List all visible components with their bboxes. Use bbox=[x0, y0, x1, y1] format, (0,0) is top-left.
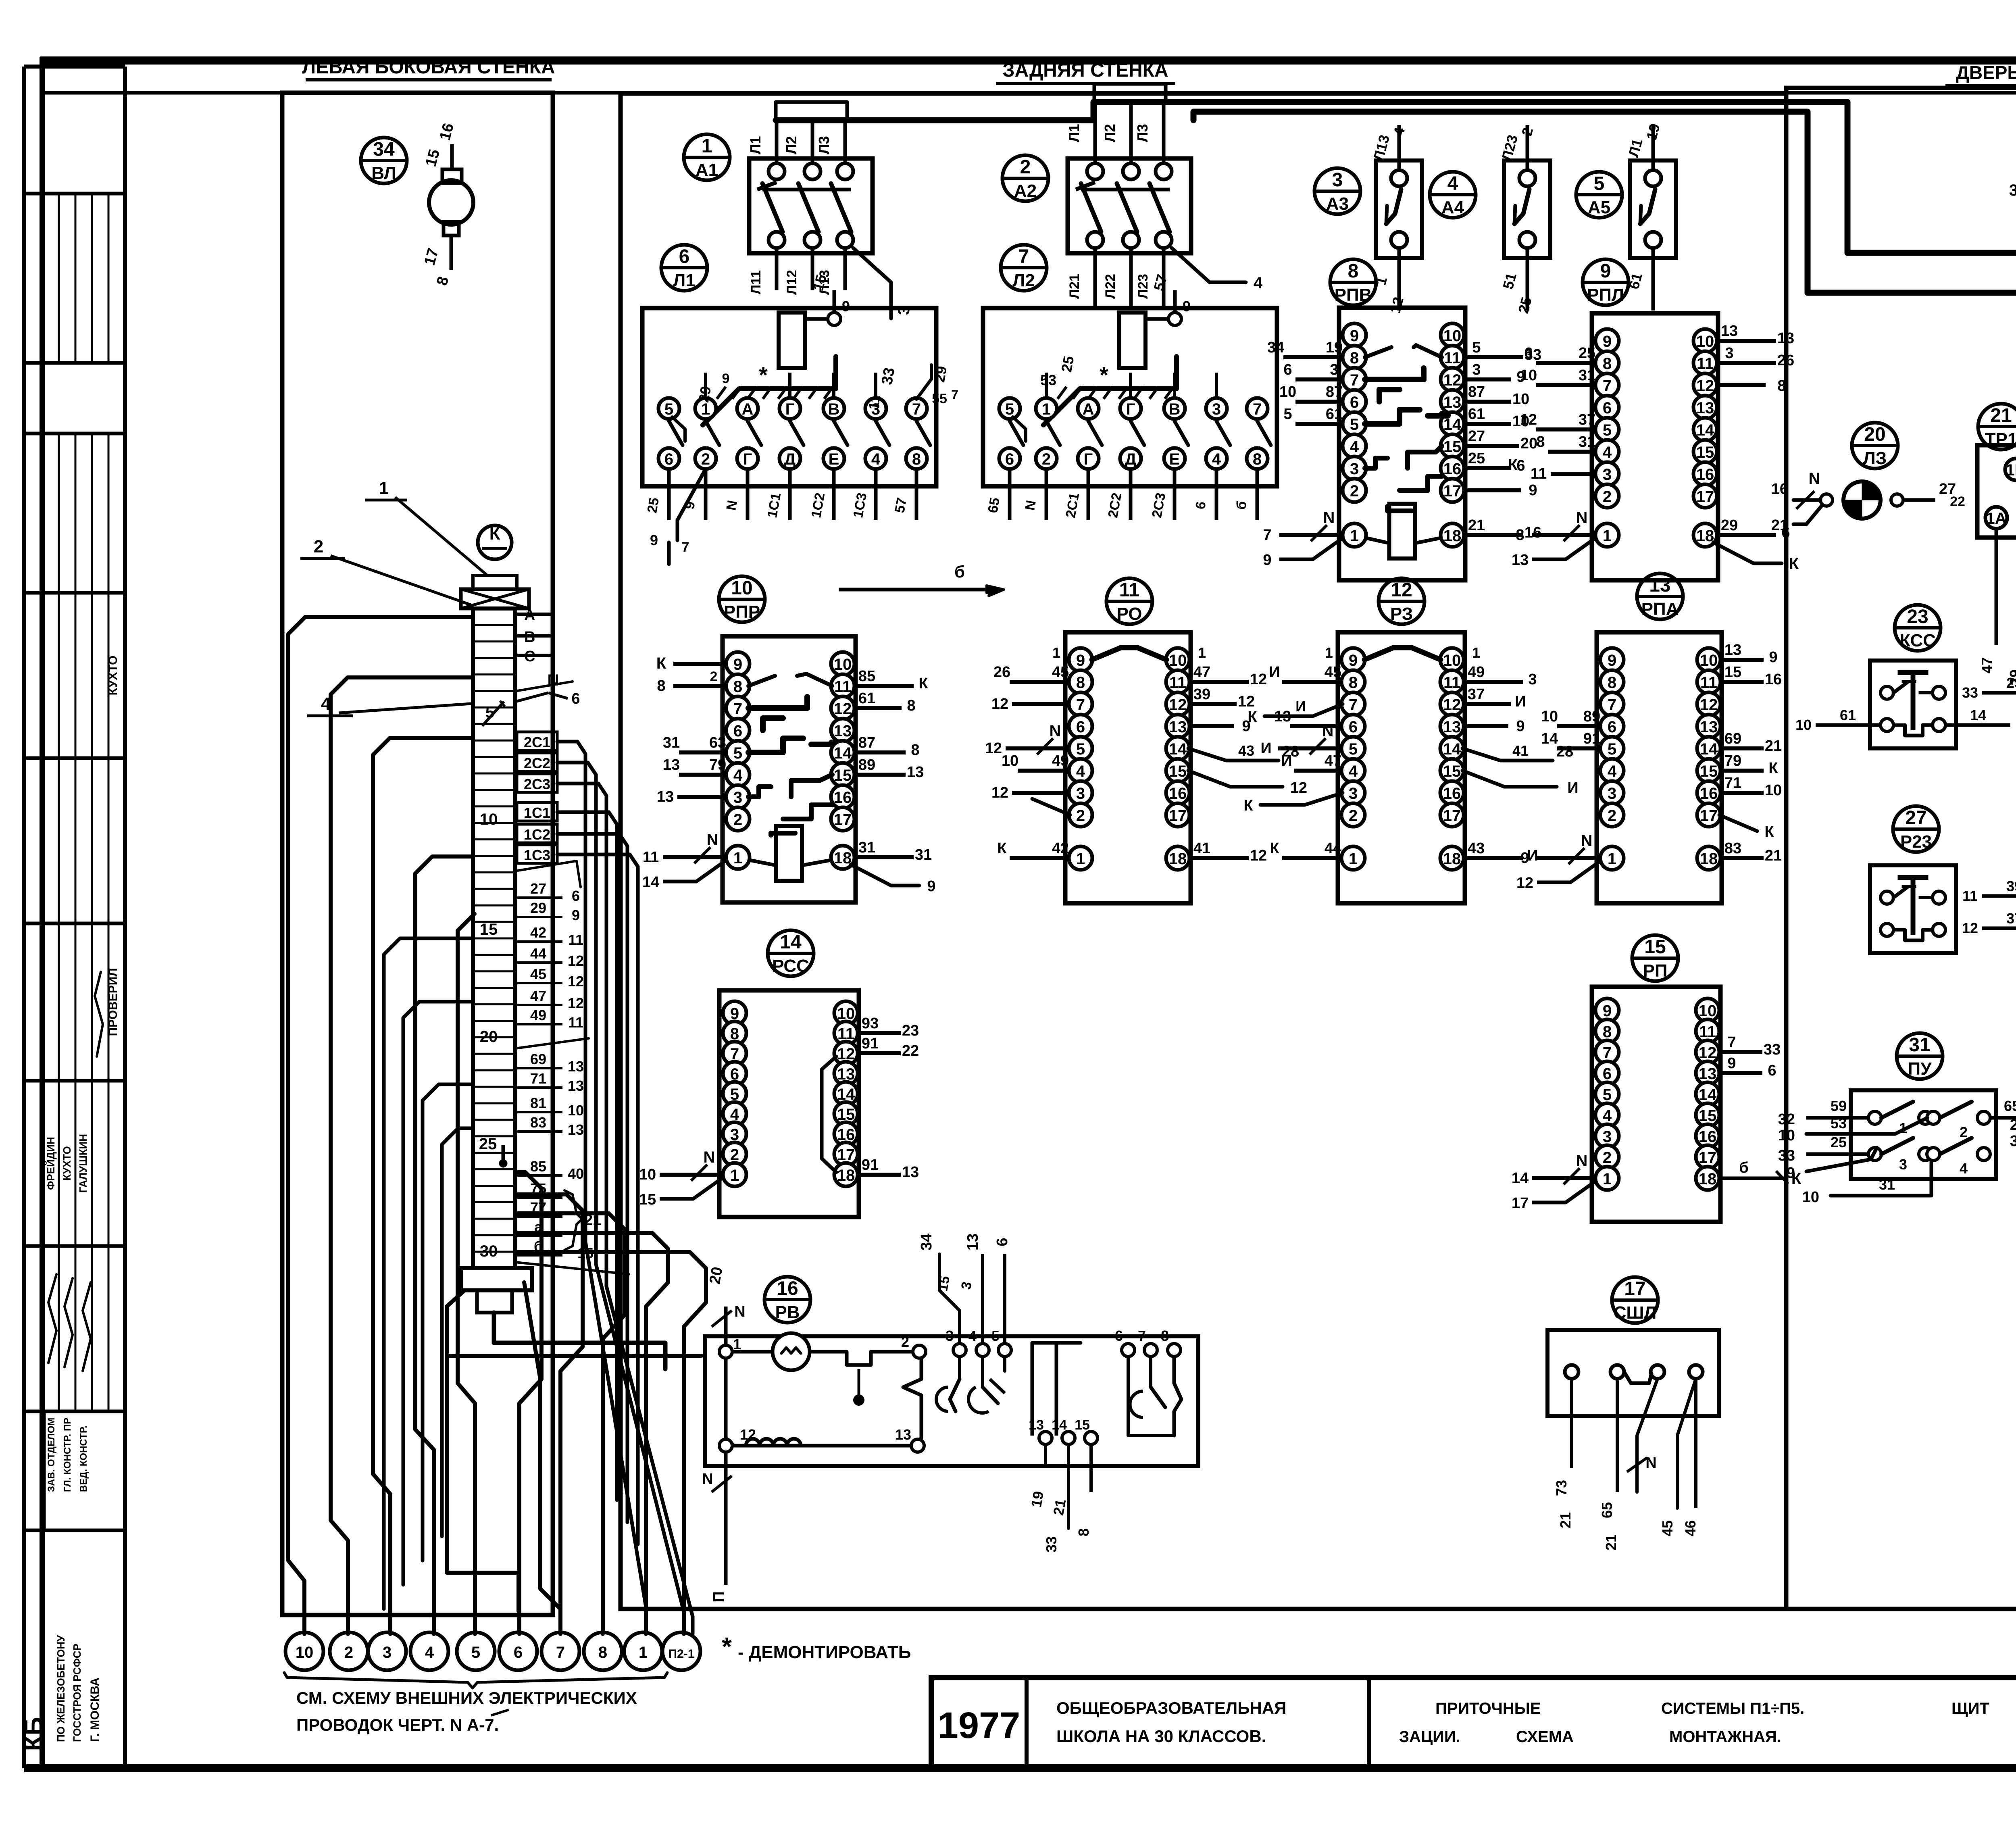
svg-text:69: 69 bbox=[1724, 730, 1741, 747]
svg-text:7: 7 bbox=[1138, 1327, 1146, 1344]
svg-text:5: 5 bbox=[991, 1327, 1000, 1344]
svg-text:61: 61 bbox=[1468, 406, 1485, 423]
svg-text:К: К bbox=[656, 654, 666, 672]
svg-text:32: 32 bbox=[1778, 1111, 1795, 1128]
contactor Л2 label bbox=[1001, 245, 1047, 291]
svg-text:14: 14 bbox=[780, 932, 802, 953]
svg-text:9: 9 bbox=[1769, 649, 1777, 666]
svg-text:14: 14 bbox=[1700, 740, 1718, 758]
svg-text:7: 7 bbox=[951, 388, 958, 402]
svg-text:41: 41 bbox=[1193, 840, 1210, 857]
svg-text:10: 10 bbox=[1279, 383, 1296, 400]
svg-text:43: 43 bbox=[1468, 840, 1485, 857]
page frame left border bbox=[40, 57, 45, 1771]
svg-text:12: 12 bbox=[1238, 693, 1255, 710]
svg-text:7: 7 bbox=[1608, 696, 1616, 714]
svg-text:9: 9 bbox=[722, 371, 730, 386]
svg-text:12: 12 bbox=[834, 700, 852, 718]
svg-text:18: 18 bbox=[1699, 1170, 1717, 1188]
svg-text:3: 3 bbox=[1076, 785, 1085, 802]
svg-text:2С3: 2С3 bbox=[524, 776, 550, 792]
svg-text:СИСТЕМЫ П1÷П5.: СИСТЕМЫ П1÷П5. bbox=[1661, 1700, 1804, 1717]
svg-text:19: 19 bbox=[1326, 339, 1343, 356]
svg-text:10: 10 bbox=[1765, 782, 1782, 799]
svg-text:2С2: 2С2 bbox=[524, 755, 550, 771]
svg-text:21: 21 bbox=[1050, 1498, 1069, 1517]
svg-text:47: 47 bbox=[1325, 752, 1341, 769]
svg-text:57: 57 bbox=[892, 496, 910, 514]
svg-text:15: 15 bbox=[1443, 763, 1461, 780]
timer RV sync motor symbol bbox=[773, 1333, 810, 1370]
relay RSS item 14 bbox=[719, 990, 859, 1217]
svg-text:65: 65 bbox=[2004, 1098, 2016, 1114]
svg-text:5: 5 bbox=[1608, 740, 1616, 758]
relay RPV stub N pin1 bbox=[1279, 533, 1344, 537]
svg-text:16: 16 bbox=[1700, 785, 1718, 802]
svg-text:2: 2 bbox=[710, 669, 718, 684]
svg-text:5: 5 bbox=[1603, 1086, 1612, 1104]
svg-text:10: 10 bbox=[731, 577, 752, 599]
svg-text:13: 13 bbox=[1699, 1065, 1717, 1083]
terminal strip boxed labels 2C1-1C3 bbox=[517, 732, 557, 750]
svg-text:ВЕД. КОНСТР.: ВЕД. КОНСТР. bbox=[78, 1425, 89, 1492]
svg-text:2: 2 bbox=[314, 537, 323, 556]
svg-text:49: 49 bbox=[1468, 664, 1485, 681]
title block frame bbox=[931, 1678, 2016, 1768]
svg-text:К: К bbox=[489, 524, 500, 544]
svg-text:14: 14 bbox=[1970, 707, 1986, 723]
breaker А4 label bbox=[1430, 172, 1476, 218]
timer RV inductor bbox=[746, 1439, 801, 1446]
svg-text:2: 2 bbox=[733, 811, 742, 829]
svg-text:10: 10 bbox=[1520, 367, 1537, 384]
svg-text:8: 8 bbox=[907, 697, 915, 714]
svg-text:14: 14 bbox=[1699, 1086, 1717, 1104]
svg-text:12: 12 bbox=[1962, 920, 1978, 936]
wire fan from terminal strip to bottom terminals left group bbox=[288, 617, 473, 1634]
contactor Л1 label bbox=[661, 245, 707, 291]
svg-text:11: 11 bbox=[1444, 349, 1461, 367]
svg-text:ЛЗ: ЛЗ bbox=[1863, 448, 1887, 468]
leader line 2 to terminal strip bbox=[331, 556, 471, 605]
heavy stepped wires bottom left area bbox=[494, 1313, 665, 1369]
svg-text:8: 8 bbox=[1516, 527, 1524, 544]
svg-text:31: 31 bbox=[1909, 1034, 1930, 1056]
svg-text:11: 11 bbox=[1119, 579, 1140, 601]
svg-text:29: 29 bbox=[931, 365, 950, 384]
leader line 1 to terminal strip bbox=[395, 497, 488, 576]
svg-text:10: 10 bbox=[1541, 708, 1558, 725]
svg-text:4: 4 bbox=[1960, 1160, 1968, 1177]
svg-text:6: 6 bbox=[733, 722, 742, 740]
svg-text:16: 16 bbox=[834, 789, 852, 806]
svg-text:11: 11 bbox=[643, 849, 659, 866]
svg-text:3: 3 bbox=[1725, 345, 1733, 362]
svg-text:1: 1 bbox=[733, 1336, 741, 1352]
svg-text:11: 11 bbox=[834, 678, 851, 696]
page frame bottom border bbox=[24, 1764, 2016, 1772]
svg-text:45: 45 bbox=[1052, 664, 1069, 681]
bottom external terminal circles bbox=[285, 1632, 323, 1670]
svg-text:23: 23 bbox=[902, 1022, 919, 1039]
svg-text:4: 4 bbox=[968, 1327, 977, 1344]
svg-text:1: 1 bbox=[702, 135, 712, 157]
main bus wire from A1 to door section bbox=[776, 102, 2016, 264]
switch PU item 31 bbox=[1851, 1090, 1996, 1179]
svg-text:89: 89 bbox=[858, 756, 875, 773]
relay RPR stubs bbox=[673, 662, 727, 666]
svg-text:89: 89 bbox=[1583, 708, 1600, 725]
svg-text:ПРОВЕРИЛ: ПРОВЕРИЛ bbox=[106, 968, 120, 1036]
relay RPV stubs right bbox=[1463, 355, 1523, 359]
svg-text:11: 11 bbox=[1699, 1023, 1716, 1041]
svg-text:6: 6 bbox=[1115, 1327, 1123, 1344]
svg-text:34: 34 bbox=[373, 139, 395, 160]
svg-text:13: 13 bbox=[1443, 394, 1462, 411]
svg-text:79: 79 bbox=[1724, 752, 1741, 769]
svg-text:10: 10 bbox=[1696, 333, 1714, 350]
svg-text:8: 8 bbox=[1603, 1023, 1612, 1041]
svg-text:N: N bbox=[1322, 722, 1334, 740]
svg-text:КУХТО: КУХТО bbox=[106, 656, 120, 696]
svg-text:37: 37 bbox=[1468, 686, 1485, 703]
svg-text:2: 2 bbox=[1076, 807, 1085, 825]
relay RZ stubs bbox=[1282, 680, 1343, 684]
SSHL wires down bbox=[1570, 1379, 1573, 1468]
svg-text:ПУ: ПУ bbox=[1908, 1059, 1932, 1079]
svg-text:3: 3 bbox=[1349, 785, 1358, 802]
stamp signature curve bbox=[95, 972, 103, 1057]
motor VL item 34 label bbox=[361, 138, 407, 183]
svg-text:13: 13 bbox=[1169, 718, 1187, 736]
svg-text:12: 12 bbox=[991, 784, 1008, 801]
svg-text:13: 13 bbox=[568, 1058, 584, 1075]
svg-text:4: 4 bbox=[1254, 274, 1263, 292]
svg-text:3: 3 bbox=[1212, 400, 1221, 418]
svg-text:РПА: РПА bbox=[1641, 599, 1679, 619]
svg-text:1: 1 bbox=[639, 1644, 648, 1661]
SSHL jumper wire bbox=[1624, 1372, 1652, 1383]
svg-text:2: 2 bbox=[1960, 1124, 1968, 1140]
svg-text:Л1: Л1 bbox=[673, 271, 695, 290]
svg-text:РСС: РСС bbox=[772, 956, 809, 976]
svg-text:13: 13 bbox=[1512, 552, 1529, 569]
svg-text:ЗАВ. ОТДЕЛОМ: ЗАВ. ОТДЕЛОМ bbox=[46, 1418, 57, 1492]
svg-text:17: 17 bbox=[1624, 1278, 1645, 1300]
svg-text:87: 87 bbox=[858, 734, 875, 751]
lamp LZ item 20 label bbox=[1852, 423, 1898, 469]
svg-text:12: 12 bbox=[1443, 371, 1462, 389]
svg-text:7: 7 bbox=[1253, 400, 1262, 418]
svg-text:16: 16 bbox=[1169, 785, 1187, 802]
contactor Л1 bottom wires bbox=[667, 469, 671, 520]
svg-text:N: N bbox=[1323, 509, 1335, 527]
svg-text:13: 13 bbox=[1274, 708, 1291, 725]
svg-text:К: К bbox=[1508, 456, 1518, 474]
svg-text:47: 47 bbox=[530, 988, 546, 1004]
svg-text:27: 27 bbox=[1468, 428, 1485, 445]
svg-text:4: 4 bbox=[1608, 763, 1617, 780]
svg-text:10: 10 bbox=[1778, 1127, 1795, 1144]
A2 tap box on bus bbox=[1094, 84, 1166, 102]
svg-text:10: 10 bbox=[1699, 1002, 1717, 1020]
svg-text:ГЛ. КОНСТР. ПР: ГЛ. КОНСТР. ПР bbox=[62, 1418, 73, 1492]
svg-text:22: 22 bbox=[902, 1042, 919, 1059]
svg-text:9: 9 bbox=[1600, 260, 1611, 282]
svg-text:29: 29 bbox=[695, 385, 714, 404]
svg-text:34: 34 bbox=[918, 1234, 935, 1250]
svg-text:Л3: Л3 bbox=[1134, 124, 1151, 142]
svg-text:5: 5 bbox=[1603, 421, 1612, 439]
svg-text:*: * bbox=[1100, 362, 1108, 388]
svg-text:4: 4 bbox=[1447, 173, 1458, 194]
brace under bottom terminals bbox=[284, 1673, 667, 1688]
svg-text:8: 8 bbox=[1253, 450, 1262, 468]
svg-text:3: 3 bbox=[1332, 169, 1343, 191]
svg-text:1: 1 bbox=[1052, 644, 1060, 661]
svg-text:83: 83 bbox=[1724, 840, 1741, 857]
svg-text:К: К bbox=[997, 840, 1007, 857]
timer RV item 16 label bbox=[764, 1277, 810, 1323]
svg-text:15: 15 bbox=[834, 767, 852, 784]
svg-text:6: 6 bbox=[1350, 394, 1359, 411]
svg-text:СХЕМА: СХЕМА bbox=[1516, 1728, 1574, 1746]
svg-text:6: 6 bbox=[1608, 718, 1616, 736]
svg-text:4: 4 bbox=[1076, 763, 1085, 780]
svg-text:11: 11 bbox=[866, 394, 883, 411]
svg-text:25: 25 bbox=[1058, 355, 1077, 374]
svg-text:10: 10 bbox=[834, 656, 852, 673]
svg-text:ПРОВОДОК ЧЕРТ. N А-7.: ПРОВОДОК ЧЕРТ. N А-7. bbox=[296, 1715, 499, 1734]
svg-text:1: 1 bbox=[1608, 850, 1616, 868]
lamp block SSHL item 17 bbox=[1547, 1330, 1719, 1416]
svg-text:19: 19 bbox=[1028, 1490, 1047, 1509]
svg-text:ЗАДНЯЯ СТЕНКА: ЗАДНЯЯ СТЕНКА bbox=[1002, 60, 1168, 81]
relay RPL stubs bbox=[1536, 361, 1597, 365]
svg-text:25: 25 bbox=[479, 1135, 497, 1153]
svg-text:17: 17 bbox=[1443, 482, 1462, 500]
svg-text:18: 18 bbox=[1443, 527, 1462, 545]
svg-text:17: 17 bbox=[1696, 488, 1714, 506]
svg-text:13: 13 bbox=[1649, 575, 1670, 596]
svg-text:1: 1 bbox=[730, 1167, 739, 1184]
svg-text:СШЛ: СШЛ bbox=[1614, 1303, 1657, 1323]
svg-text:П: П bbox=[710, 1591, 727, 1602]
svg-text:10: 10 bbox=[1169, 652, 1187, 669]
svg-text:1С1: 1С1 bbox=[524, 804, 550, 821]
svg-text:А4: А4 bbox=[1441, 198, 1464, 217]
svg-text:29: 29 bbox=[1721, 517, 1738, 534]
relay RZ item 12 label bbox=[1379, 578, 1425, 624]
circuit breaker A1 label bbox=[684, 134, 730, 180]
svg-text:5: 5 bbox=[1349, 740, 1358, 758]
svg-text:12: 12 bbox=[991, 696, 1008, 713]
svg-text:А: А bbox=[1083, 400, 1094, 418]
svg-text:2: 2 bbox=[1608, 807, 1616, 825]
svg-text:6: 6 bbox=[1076, 718, 1085, 736]
svg-text:7: 7 bbox=[733, 700, 742, 718]
svg-text:б: б bbox=[954, 562, 965, 581]
svg-text:4: 4 bbox=[871, 450, 881, 468]
svg-text:4: 4 bbox=[425, 1644, 434, 1661]
svg-text:6: 6 bbox=[1005, 450, 1014, 468]
svg-text:Л12: Л12 bbox=[784, 270, 800, 295]
svg-text:21: 21 bbox=[1990, 405, 2012, 426]
timer RV wires above 34 13 6 bbox=[939, 1254, 960, 1311]
corridor wires from strip boxed rows down right bbox=[557, 742, 646, 1634]
svg-text:И: И bbox=[1295, 698, 1306, 715]
svg-text:9: 9 bbox=[1076, 652, 1085, 669]
svg-text:А: А bbox=[742, 400, 754, 418]
svg-text:И: И bbox=[1567, 779, 1578, 796]
svg-text:8: 8 bbox=[911, 742, 919, 759]
svg-text:39: 39 bbox=[2006, 878, 2016, 894]
svg-text:12: 12 bbox=[1169, 696, 1187, 714]
svg-text:21: 21 bbox=[1765, 847, 1782, 864]
svg-text:15: 15 bbox=[480, 921, 498, 938]
svg-text:Л2: Л2 bbox=[783, 136, 800, 154]
svg-text:16: 16 bbox=[1524, 524, 1541, 541]
svg-text:45: 45 bbox=[1659, 1520, 1676, 1536]
svg-text:8: 8 bbox=[1076, 674, 1085, 692]
svg-text:6: 6 bbox=[1516, 457, 1525, 474]
svg-text:К: К bbox=[1789, 555, 1799, 573]
svg-text:40: 40 bbox=[568, 1165, 584, 1182]
svg-text:49: 49 bbox=[530, 1007, 546, 1023]
svg-text:8: 8 bbox=[912, 450, 921, 468]
svg-text:ЩИТ: ЩИТ bbox=[1951, 1700, 1989, 1717]
svg-text:69: 69 bbox=[530, 1051, 546, 1067]
svg-text:2: 2 bbox=[1350, 482, 1359, 500]
svg-text:N: N bbox=[707, 831, 719, 849]
svg-text:В: В bbox=[1169, 400, 1181, 418]
svg-text:ПРИТОЧНЫЕ: ПРИТОЧНЫЕ bbox=[1435, 1700, 1541, 1717]
svg-text:9: 9 bbox=[1183, 298, 1191, 315]
svg-text:18: 18 bbox=[1443, 850, 1461, 868]
svg-text:7: 7 bbox=[1603, 377, 1612, 395]
svg-text:47: 47 bbox=[1193, 664, 1210, 681]
svg-text:9: 9 bbox=[733, 656, 742, 673]
svg-text:12: 12 bbox=[568, 952, 584, 969]
breaker А5 label bbox=[1576, 172, 1622, 218]
svg-text:47: 47 bbox=[1979, 657, 1995, 673]
timer RV item 16 body bbox=[705, 1336, 1198, 1466]
A1 tap box on bus bbox=[776, 102, 847, 120]
svg-text:11: 11 bbox=[1531, 465, 1547, 482]
svg-text:8: 8 bbox=[1161, 1327, 1169, 1344]
svg-text:81: 81 bbox=[530, 1095, 546, 1111]
relay RO item 11 bbox=[1065, 632, 1191, 903]
svg-text:РО: РО bbox=[1117, 604, 1142, 624]
svg-text:65: 65 bbox=[1599, 1502, 1615, 1518]
svg-text:3: 3 bbox=[383, 1644, 392, 1661]
svg-text:10: 10 bbox=[568, 1102, 584, 1119]
svg-text:63: 63 bbox=[709, 734, 726, 751]
svg-text:43: 43 bbox=[1238, 742, 1254, 759]
svg-text:1С3: 1С3 bbox=[524, 847, 550, 863]
svg-text:3: 3 bbox=[1472, 361, 1481, 378]
svg-text:17: 17 bbox=[834, 811, 852, 829]
page frame inner top line bbox=[42, 91, 2016, 95]
svg-text:Е: Е bbox=[829, 450, 839, 468]
svg-text:9: 9 bbox=[650, 532, 658, 548]
svg-text:26: 26 bbox=[993, 664, 1010, 681]
svg-text:41: 41 bbox=[1512, 742, 1529, 759]
svg-text:2: 2 bbox=[730, 1146, 739, 1164]
svg-text:7: 7 bbox=[1349, 696, 1358, 714]
svg-text:*: * bbox=[722, 1632, 732, 1661]
svg-text:31: 31 bbox=[663, 734, 680, 751]
svg-text:Г. МОСКВА: Г. МОСКВА bbox=[88, 1678, 102, 1742]
svg-text:31: 31 bbox=[2010, 1133, 2016, 1150]
page frame outer top border bbox=[40, 56, 2016, 65]
svg-text:17: 17 bbox=[837, 1146, 855, 1164]
svg-text:МОНТАЖНАЯ.: МОНТАЖНАЯ. bbox=[1669, 1728, 1781, 1746]
svg-text:9: 9 bbox=[1529, 482, 1537, 499]
svg-text:4: 4 bbox=[1212, 450, 1221, 468]
svg-text:5: 5 bbox=[471, 1644, 480, 1661]
terminal strip K label bbox=[478, 525, 512, 559]
svg-text:9: 9 bbox=[842, 298, 850, 315]
svg-text:31: 31 bbox=[915, 846, 932, 863]
svg-text:13: 13 bbox=[907, 764, 924, 781]
svg-text:42: 42 bbox=[1052, 840, 1069, 857]
svg-text:13: 13 bbox=[834, 722, 852, 740]
svg-text:10: 10 bbox=[1443, 327, 1462, 345]
svg-text:ПО ЖЕЛЕЗОБЕТОНУ: ПО ЖЕЛЕЗОБЕТОНУ bbox=[55, 1635, 67, 1742]
svg-text:12: 12 bbox=[740, 1426, 756, 1443]
svg-text:9: 9 bbox=[572, 907, 580, 923]
svg-text:б: б bbox=[1739, 1159, 1748, 1176]
svg-text:21: 21 bbox=[1468, 517, 1485, 534]
transformer TR1 bottom wires bbox=[1995, 529, 1998, 645]
svg-text:21: 21 bbox=[1771, 517, 1788, 534]
svg-text:8: 8 bbox=[1777, 377, 1786, 394]
svg-text:28: 28 bbox=[1556, 743, 1573, 760]
push button Р23 label bbox=[1893, 806, 1939, 852]
svg-text:13: 13 bbox=[568, 1077, 584, 1094]
svg-text:И: И bbox=[1260, 740, 1271, 757]
svg-text:12: 12 bbox=[1391, 579, 1412, 601]
svg-text:12: 12 bbox=[1290, 779, 1307, 796]
svg-text:ДВЕРЬ (ВИД СЗАДИ): ДВЕРЬ (ВИД СЗАДИ) bbox=[1956, 62, 2016, 83]
push button КСС label bbox=[1895, 605, 1941, 651]
svg-text:6: 6 bbox=[1603, 399, 1612, 417]
svg-text:П2-1: П2-1 bbox=[669, 1647, 695, 1661]
svg-text:3: 3 bbox=[1330, 361, 1338, 378]
terminal strip fuse crossed box bbox=[473, 575, 517, 589]
svg-text:37: 37 bbox=[2006, 910, 2016, 927]
relay RPV item 8 label bbox=[1330, 259, 1376, 305]
svg-text:КУХТО: КУХТО bbox=[61, 1146, 73, 1181]
relay RO stubs bbox=[1010, 680, 1070, 684]
svg-text:13: 13 bbox=[1721, 323, 1738, 340]
svg-text:14: 14 bbox=[1512, 1170, 1529, 1187]
svg-text:2С1: 2С1 bbox=[524, 734, 550, 750]
switch PU wires bbox=[1806, 1116, 1868, 1120]
contactor Л1 bbox=[642, 308, 936, 486]
relay RP stubs bbox=[1718, 1050, 1762, 1054]
lamp block SSHL item 17 label bbox=[1612, 1277, 1658, 1323]
svg-text:8: 8 bbox=[598, 1644, 607, 1661]
svg-text:16: 16 bbox=[1696, 466, 1714, 483]
svg-text:9: 9 bbox=[1787, 1165, 1795, 1182]
svg-text:7: 7 bbox=[1603, 1044, 1612, 1062]
svg-text:87: 87 bbox=[1326, 383, 1343, 400]
stamp signatures squiggles bbox=[48, 1274, 56, 1363]
wire bundle lower left heavy steps bbox=[282, 614, 302, 615]
svg-text:65: 65 bbox=[985, 496, 1003, 514]
